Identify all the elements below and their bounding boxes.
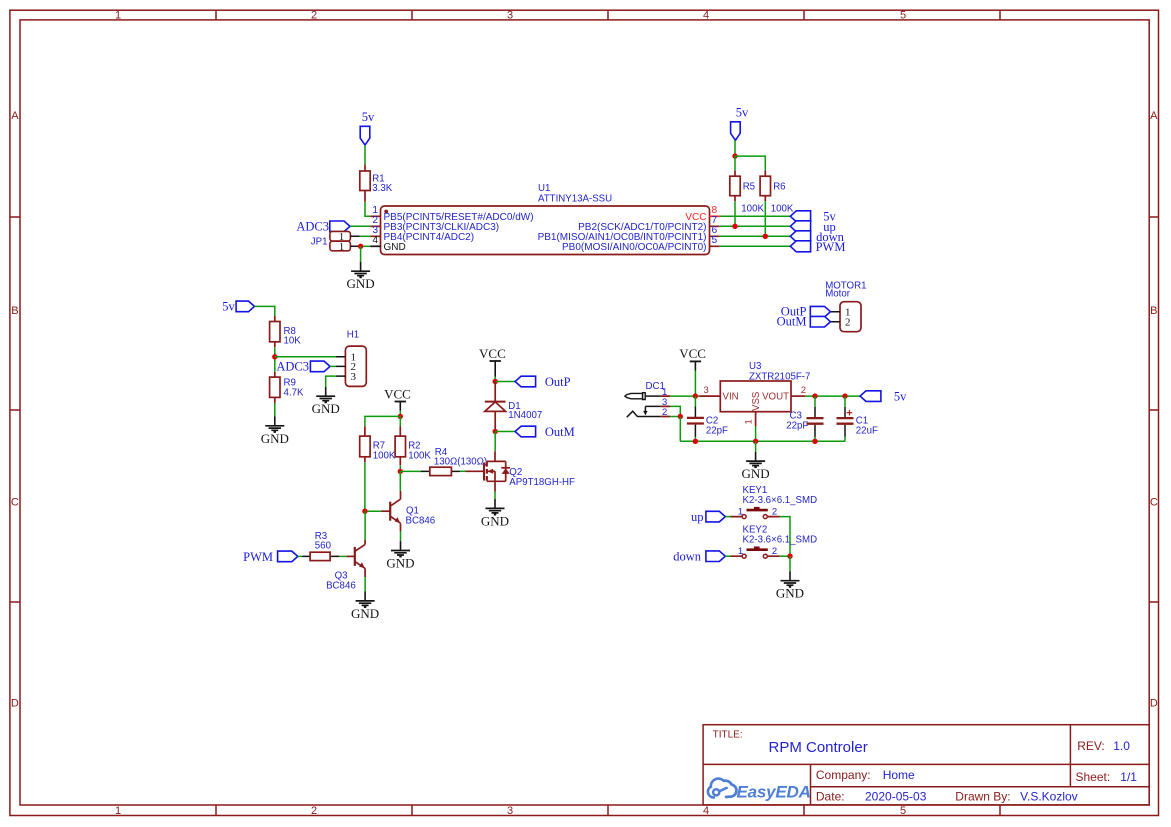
wire [694, 371, 696, 396]
svg-text:100K: 100K [373, 450, 396, 461]
svg-text:Home: Home [883, 768, 915, 782]
junction [812, 439, 817, 444]
connector H1 [336, 330, 367, 387]
wire [670, 406, 680, 416]
wire [275, 356, 336, 358]
wire [365, 202, 370, 217]
junction [398, 469, 403, 474]
svg-text:3.3K: 3.3K [372, 183, 392, 194]
svg-text:5: 5 [900, 10, 906, 22]
svg-text:U1: U1 [538, 183, 550, 194]
svg-text:ADC3: ADC3 [296, 220, 329, 234]
wire [460, 470, 466, 472]
svg-text:V.S.Kozlov: V.S.Kozlov [1020, 790, 1078, 804]
svg-text:5v: 5v [222, 300, 235, 314]
svg-text:A: A [1150, 110, 1158, 122]
svg-text:2: 2 [311, 805, 317, 817]
wire [364, 462, 366, 511]
svg-text:4: 4 [703, 805, 709, 817]
wire [365, 416, 400, 426]
junction [842, 393, 847, 398]
svg-text:10K: 10K [284, 336, 302, 347]
svg-text:4.7K: 4.7K [284, 388, 304, 399]
wire [494, 377, 496, 382]
resistor R7 [360, 426, 396, 462]
junction [398, 414, 403, 419]
svg-text:GND: GND [261, 431, 289, 446]
ground [351, 592, 379, 621]
wire [720, 235, 791, 237]
resistor R3 [302, 531, 339, 561]
svg-text:1: 1 [744, 419, 755, 424]
wire [361, 245, 371, 247]
wire [720, 215, 791, 217]
capacitor C1 [837, 396, 878, 441]
svg-text:Drawn By:: Drawn By: [955, 790, 1010, 804]
power symbol VCC [479, 346, 506, 377]
net flag ADC3 [296, 220, 350, 234]
net flag 5v [790, 210, 836, 224]
power flag 5v [731, 106, 749, 141]
IC U3 ZXTR2105F-7 [699, 361, 810, 426]
ground [347, 262, 375, 291]
junction [693, 393, 698, 398]
wire [365, 510, 381, 512]
connector DC1 [625, 381, 670, 418]
resistor R4 [421, 447, 488, 476]
ground [776, 571, 804, 600]
wire [350, 225, 370, 227]
svg-text:2: 2 [772, 546, 777, 557]
power symbol VCC [679, 346, 706, 370]
transistor Q1 [381, 491, 435, 531]
svg-text:1N4007: 1N4007 [508, 410, 542, 421]
wire [274, 347, 276, 372]
capacitor C2 [687, 396, 728, 442]
junction [693, 439, 698, 444]
svg-text:D: D [11, 698, 19, 710]
svg-text:GND: GND [742, 466, 770, 481]
svg-text:R5: R5 [743, 181, 755, 192]
svg-text:2: 2 [662, 407, 667, 418]
wire [364, 511, 366, 540]
wire [255, 306, 275, 316]
svg-text:100K: 100K [408, 450, 431, 461]
svg-text:5: 5 [900, 805, 906, 817]
svg-text:GND: GND [312, 401, 340, 416]
resistor R6 [760, 171, 794, 215]
wire [805, 395, 860, 397]
wire [755, 426, 757, 441]
net flag PWM [243, 550, 298, 564]
svg-text:PWM: PWM [816, 240, 846, 254]
title block [703, 725, 1149, 805]
junction [787, 554, 792, 559]
ground [261, 416, 289, 445]
svg-text:VOUT: VOUT [762, 392, 789, 403]
net flag down [673, 550, 725, 564]
junction [493, 379, 498, 384]
resistor R9 [270, 372, 304, 403]
svg-text:K2-3.6×6.1_SMD: K2-3.6×6.1_SMD [743, 495, 818, 506]
svg-text:GND: GND [386, 556, 414, 571]
svg-text:2: 2 [801, 385, 806, 396]
svg-text:VCC: VCC [384, 386, 411, 401]
junction [358, 244, 363, 249]
svg-text:560: 560 [315, 541, 332, 552]
wire [755, 441, 757, 451]
svg-text:Motor: Motor [825, 288, 851, 299]
net flag up [790, 220, 835, 234]
svg-text:1: 1 [115, 805, 121, 817]
wire [360, 246, 362, 261]
svg-text:PB0(MOSI/AIN0/OC0A/PCINT0): PB0(MOSI/AIN0/OC0A/PCINT0) [562, 242, 706, 253]
connector JP1 [311, 231, 361, 253]
wire [764, 201, 766, 236]
wire [399, 465, 401, 471]
svg-text:up: up [691, 510, 704, 524]
wire [780, 517, 790, 557]
junction [732, 153, 737, 158]
wire [399, 411, 401, 417]
svg-text:JP1: JP1 [311, 237, 328, 248]
wire [364, 577, 366, 591]
wire [495, 381, 515, 383]
junction [753, 439, 758, 444]
ground [312, 387, 340, 416]
svg-text:VCC: VCC [679, 346, 706, 361]
wire [399, 416, 401, 426]
svg-text:5v: 5v [362, 110, 375, 124]
junction [812, 393, 817, 398]
svg-text:RPM Controler: RPM Controler [769, 739, 868, 756]
svg-text:1: 1 [115, 10, 121, 22]
wire [670, 395, 699, 397]
wire [734, 156, 736, 171]
wire [494, 492, 496, 500]
svg-text:H1: H1 [347, 330, 359, 341]
svg-text:22uF: 22uF [856, 425, 878, 436]
svg-text:EasyEDA: EasyEDA [737, 783, 811, 802]
svg-text:down: down [673, 550, 702, 564]
junction [732, 224, 737, 229]
svg-text:OutP: OutP [545, 375, 571, 389]
svg-text:2: 2 [845, 317, 851, 329]
net flag down [790, 230, 844, 244]
svg-text:GND: GND [776, 586, 804, 601]
wire [400, 531, 402, 541]
svg-text:22pF: 22pF [786, 421, 808, 432]
svg-text:5: 5 [712, 235, 718, 246]
svg-text:D: D [1150, 698, 1158, 710]
switch KEY1 [731, 485, 818, 518]
svg-text:1: 1 [339, 241, 345, 253]
svg-text:VIN: VIN [723, 392, 739, 403]
junction [362, 509, 367, 514]
svg-text:B: B [1150, 305, 1157, 317]
wire [720, 225, 791, 227]
svg-text:REV:: REV: [1077, 739, 1105, 753]
power flag 5v [222, 300, 254, 314]
svg-text:100K: 100K [741, 204, 764, 215]
wire [339, 555, 346, 557]
wire [734, 201, 736, 226]
svg-text:100K: 100K [771, 204, 794, 215]
svg-text:4: 4 [372, 235, 378, 246]
svg-text:1: 1 [738, 506, 743, 517]
wire [494, 432, 496, 452]
svg-text:Date:: Date: [816, 790, 845, 804]
wire [725, 516, 730, 518]
net flag OutM [777, 315, 831, 329]
svg-text:1: 1 [738, 546, 743, 557]
svg-text:2020-05-03: 2020-05-03 [865, 790, 927, 804]
svg-text:BC846: BC846 [406, 516, 436, 527]
svg-text:2: 2 [772, 506, 777, 517]
wire [298, 555, 302, 557]
svg-text:K2-3.6×6.1_SMD: K2-3.6×6.1_SMD [743, 534, 818, 545]
wire [735, 156, 765, 171]
net flag OutM [515, 425, 575, 439]
svg-text:3: 3 [704, 385, 709, 396]
net flag 5v [860, 389, 907, 403]
junction [493, 429, 498, 434]
wire [274, 403, 276, 416]
wire [326, 376, 336, 387]
svg-text:130Ω(130Ω): 130Ω(130Ω) [434, 457, 487, 468]
switch KEY2 [731, 525, 818, 559]
svg-text:2: 2 [311, 10, 317, 22]
resistor R1 [360, 165, 393, 202]
svg-text:4: 4 [703, 10, 709, 22]
ground [742, 452, 770, 481]
svg-text:Sheet:: Sheet: [1076, 770, 1111, 784]
transistor Q2 [465, 451, 575, 491]
svg-text:GND: GND [481, 513, 509, 528]
svg-text:22pF: 22pF [706, 425, 728, 436]
resistor R8 [270, 316, 302, 347]
EasyEDA logo [708, 779, 811, 802]
wire [364, 145, 366, 165]
svg-text:C: C [1150, 497, 1158, 509]
svg-text:1/1: 1/1 [1120, 770, 1137, 784]
junction [272, 354, 277, 359]
svg-text:5v: 5v [736, 106, 749, 120]
svg-text:VSS: VSS [751, 391, 762, 411]
wire [400, 470, 420, 472]
svg-text:OutM: OutM [545, 425, 575, 439]
wire [679, 417, 681, 442]
svg-text:GND: GND [384, 242, 406, 253]
net flag PWM [790, 240, 845, 254]
wire [734, 140, 736, 156]
junction [763, 234, 768, 239]
svg-text:1.0: 1.0 [1113, 739, 1130, 753]
power flag 5v [360, 110, 375, 145]
wire [330, 365, 336, 367]
net flag up [691, 510, 725, 524]
ground [386, 541, 414, 570]
svg-text:ATTINY13A-SSU: ATTINY13A-SSU [538, 194, 612, 205]
wire [789, 556, 791, 571]
wire [725, 555, 730, 557]
resistor R5 [730, 171, 765, 215]
svg-text:GND: GND [351, 606, 379, 621]
svg-text:TITLE:: TITLE: [713, 729, 743, 740]
net flag ADC3 [276, 360, 330, 374]
svg-text:Company:: Company: [816, 768, 871, 782]
wire [780, 555, 790, 557]
wire [399, 471, 401, 491]
svg-text:AP9T18GH-HF: AP9T18GH-HF [509, 477, 575, 488]
diode D1 [485, 382, 542, 432]
svg-text:C: C [11, 497, 19, 509]
svg-text:ADC3: ADC3 [276, 360, 309, 374]
svg-text:GND: GND [347, 276, 375, 291]
svg-text:R6: R6 [773, 181, 785, 192]
junction [678, 414, 683, 419]
svg-text:+: + [846, 408, 852, 420]
svg-text:5v: 5v [894, 389, 907, 403]
svg-text:B: B [11, 305, 18, 317]
svg-text:3: 3 [507, 805, 513, 817]
svg-text:3: 3 [507, 10, 513, 22]
connector MOTOR1 [825, 280, 866, 331]
net flag OutP [781, 305, 831, 319]
wire [680, 440, 845, 442]
wire [720, 245, 791, 247]
svg-text:BC846: BC846 [326, 580, 356, 591]
ground [481, 499, 509, 528]
svg-text:3: 3 [350, 371, 356, 383]
power symbol VCC [384, 386, 411, 411]
IC U1 ATTINY13A-SSU [370, 183, 719, 255]
wire [495, 431, 515, 433]
resistor R2 [395, 426, 431, 465]
svg-text:VCC: VCC [479, 346, 506, 361]
capacitor C3 [786, 396, 823, 441]
net flag OutP [515, 375, 571, 389]
transistor Q3 [326, 540, 365, 592]
svg-text:OutM: OutM [777, 315, 807, 329]
svg-text:PWM: PWM [243, 550, 273, 564]
svg-text:A: A [11, 110, 19, 122]
wire [360, 235, 371, 237]
